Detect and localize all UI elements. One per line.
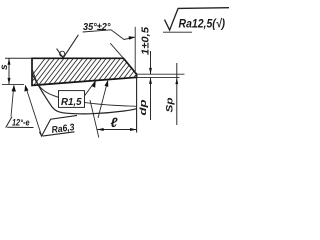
- Sp dimension: [176, 63, 178, 125]
- 12 deg label: [6, 117, 12, 128]
- svg-text:dр: dр: [138, 99, 149, 115]
- top surface extension left: [5, 57, 32, 59]
- roller profile lower curve P2: [33, 75, 137, 114]
- svg-text:s: s: [0, 64, 10, 70]
- s dimension: [8, 58, 10, 84]
- R1,5 leader 2: [98, 81, 108, 119]
- bottom extension left for s: [2, 83, 24, 85]
- svg-text:ℓ: ℓ: [111, 115, 119, 130]
- svg-text:R1,5: R1,5: [61, 97, 82, 108]
- R1,5 leader 1: [85, 81, 96, 96]
- reference lines right: [137, 73, 185, 75]
- roller profile upper curve P1: [32, 69, 137, 107]
- svg-text:Ra12,5(√): Ra12,5(√): [179, 17, 226, 31]
- vertical angle reference line: [134, 27, 136, 74]
- svg-text:Sр: Sр: [165, 97, 176, 112]
- technical drawing: ring cross-section with roller profile: [0, 0, 229, 150]
- svg-text:1±0,5: 1±0,5: [141, 27, 152, 55]
- 1±0,5 / dp dimension line: [150, 51, 152, 74]
- slanted extension for l: [90, 100, 99, 138]
- ring outline (thick): [32, 58, 137, 85]
- top-left roughness symbol (circle + check): [60, 51, 65, 56]
- R1,5 box: [59, 91, 85, 108]
- Ra6,3 symbol: [39, 115, 77, 136]
- Ra6,3 leader with arrow: [25, 86, 41, 136]
- hatch (section): [20, 52, 163, 91]
- top-right Ra12,5 symbol: [165, 8, 230, 30]
- svg-text:12°-е: 12°-е: [12, 118, 30, 129]
- l dimension: [97, 129, 136, 131]
- roller right edge + l extension: [136, 74, 138, 132]
- 12 deg leader with arrow: [11, 86, 14, 117]
- chamfer extension line: [110, 43, 123, 58]
